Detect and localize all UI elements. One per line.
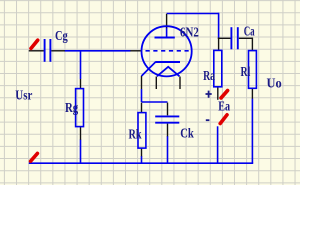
svg-text:Ca: Ca xyxy=(244,25,255,40)
svg-text:Uo: Uo xyxy=(267,76,282,91)
svg-text:Rk: Rk xyxy=(129,128,142,143)
svg-text:Cg: Cg xyxy=(55,29,68,44)
svg-text:Ea: Ea xyxy=(218,99,230,114)
svg-text:Rl: Rl xyxy=(241,65,251,80)
svg-text:Ck: Ck xyxy=(180,127,194,142)
svg-text:Rg: Rg xyxy=(65,101,78,116)
svg-text:Ra: Ra xyxy=(203,69,215,84)
svg-text:6N2: 6N2 xyxy=(180,25,199,40)
svg-text:Usr: Usr xyxy=(15,89,32,104)
